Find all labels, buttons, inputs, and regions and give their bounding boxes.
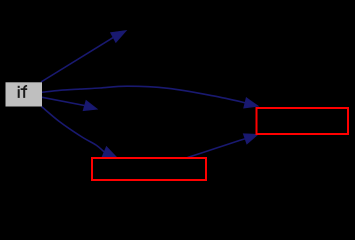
node "if" (grey focus box) <box>6 82 43 106</box>
wire: edge if -> hidden node (middle) <box>42 97 98 111</box>
wire: edge bottom red node -> right red node (enters bottom-left) <box>188 134 259 158</box>
wire: edge if -> bottom red node <box>42 107 117 158</box>
call graph for node "if" <box>0 0 355 189</box>
node: bottom red box (callee, truncated) <box>92 158 206 180</box>
wire: edge if -> right red node (enters top-left) <box>42 86 259 108</box>
node: right red box (callee, truncated) <box>257 108 349 134</box>
wire: edge if -> hidden node (upper right) <box>41 30 127 82</box>
